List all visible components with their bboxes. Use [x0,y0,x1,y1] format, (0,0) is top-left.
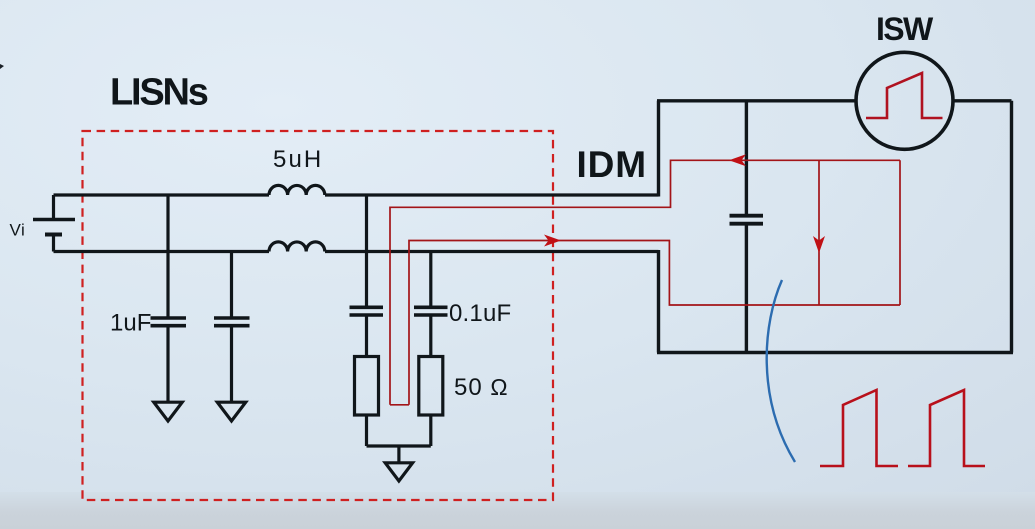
ground G1 [154,402,182,421]
waveform ISW pulses (bottom right) [820,390,898,466]
capacitor C1 (1uF left) [151,195,187,402]
IDM loop U bottom [390,404,409,406]
callout blue curve [767,280,795,462]
IDM loop right edge [899,160,901,305]
IDM loop middle branch [818,160,820,305]
source ISW circle [856,52,953,149]
source V1 battery [33,195,75,252]
wire top line after inductor [325,193,659,196]
inductor L2 [269,242,325,252]
svg-text:Vi: Vi [10,221,26,240]
svg-text:0.1uF: 0.1uF [449,300,511,327]
LISN boundary (red dashed box) [83,131,554,500]
wire bottom line [54,250,270,253]
ISW waveform [866,73,943,118]
arrow right (lower loop) [544,235,561,247]
IDM loop upper: LISN to corner [390,160,900,404]
svg-text:LISNs: LISNs [110,72,208,114]
capacitor C3 (0.1uF left) [350,195,384,356]
DUT box left edge upper [657,101,660,197]
wire join resistors [367,444,431,447]
svg-text:1uF: 1uF [110,310,151,337]
svg-text:IDM: IDM [577,144,648,185]
stray mark left edge [0,64,4,69]
DUT box top edge right of ISW [953,99,1012,102]
DUT box left edge lower [657,250,660,353]
DUT box top edge [657,99,856,102]
wire R2 bottom [429,415,432,446]
svg-text:50 Ω: 50 Ω [454,374,509,401]
ground G2 [217,402,245,421]
svg-text:5uH: 5uH [273,146,323,173]
DUT box right edge [1010,101,1013,353]
wire bottom line after inductor [325,250,659,253]
IDM loop lower: LISN to right [409,241,900,405]
capacitor C5 (in DUT) [730,101,764,353]
wire ground stem [397,446,400,462]
svg-text:ISW: ISW [876,11,934,47]
capacitor C2 (1uF right) [214,252,250,403]
capacitor C4 (0.1uF right) [414,252,448,357]
wire R1 bottom [365,415,368,446]
arrow down (middle branch) [813,236,825,253]
ground G3 [385,463,412,481]
arrow left (upper loop) [729,154,746,166]
resistor R1 (50 ohm left) [355,357,379,416]
wire top line [54,193,270,196]
inductor L1 [269,185,325,195]
resistor R2 (50 ohm right) [419,357,443,416]
DUT box bottom edge [657,351,1013,354]
